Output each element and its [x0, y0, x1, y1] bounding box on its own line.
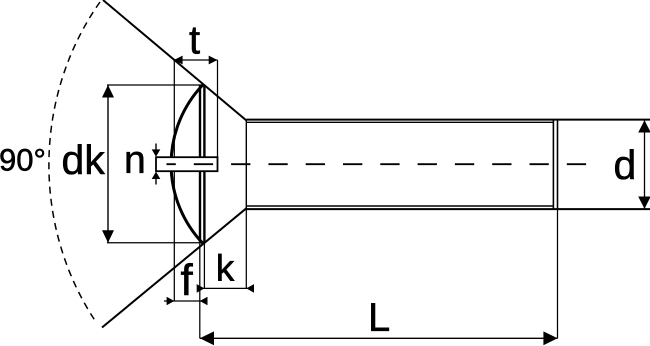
label d [615, 149, 634, 179]
dimension k: line [197, 287, 254, 289]
label L [371, 303, 389, 331]
dimension dk: top arrow [102, 85, 114, 98]
extension line x=557.5 below shank (L right datum) [557, 209, 559, 338]
screw head dome arc [171, 85, 203, 243]
90-degree construction arc (dashed) [49, 2, 100, 322]
dimension t: left arrow [174, 56, 183, 65]
centerline dashes [167, 163, 589, 165]
label t [190, 28, 200, 54]
shank top outer line (extends as d extension) [246, 119, 650, 121]
label k [218, 254, 234, 281]
dimension t: line [174, 59, 218, 61]
shank bottom outer line (extends as d extension) [246, 208, 650, 210]
shank bottom inner line [246, 205, 553, 207]
label f [181, 263, 193, 295]
dimension f: line [164, 300, 207, 302]
slot band (white filled rect over head) [156, 157, 218, 171]
label 90 degrees [1, 149, 45, 171]
cone construction line bottom [102, 208, 246, 327]
head edge line A [199, 85, 201, 243]
dk top extension line [107, 84, 203, 86]
dimension n: top arrow [152, 149, 161, 156]
dimension n: bottom arrow [152, 172, 161, 179]
shank top inner line [246, 121, 553, 123]
label dk [63, 144, 105, 174]
dimension f: right arrow (outside, points left) [200, 297, 208, 306]
dk bottom extension line [107, 242, 203, 244]
head-shank junction vertical [245, 120, 247, 210]
t extension line right (slot bottom) [217, 60, 219, 158]
dimension f: left arrow (outside, points right) [167, 297, 175, 306]
dimension n: top stem [155, 144, 157, 151]
dimension n: bottom stem [155, 179, 157, 185]
shank end inner vertical [552, 120, 554, 210]
dimension d: vertical line [644, 120, 646, 208]
dimension L: line [200, 337, 558, 339]
extension line x=204.4 below head (k left datum) [203, 243, 205, 288]
dimension L: right arrow [543, 331, 557, 345]
dimension dk: bottom arrow [102, 230, 114, 243]
dimension k: left arrow (outside, points right) [197, 284, 205, 293]
dimension d: bottom arrow [638, 197, 650, 209]
dimension t: right arrow [209, 56, 218, 65]
label n [127, 152, 144, 173]
cone construction line top [103, 0, 246, 120]
dimension k: right arrow (outside, points left) [246, 284, 254, 293]
dimension d: top arrow [638, 120, 650, 132]
shank end outer vertical [557, 120, 559, 210]
head edge line B [203, 85, 205, 243]
extension line x=246.3 below shank (k right datum) [245, 209, 247, 288]
dimension dk: vertical line [107, 85, 109, 243]
extension line x=199.8 below head (f right / L left datum) [199, 243, 201, 338]
dimension L: left arrow [200, 331, 214, 345]
t extension line left (also f datum) [173, 60, 175, 301]
